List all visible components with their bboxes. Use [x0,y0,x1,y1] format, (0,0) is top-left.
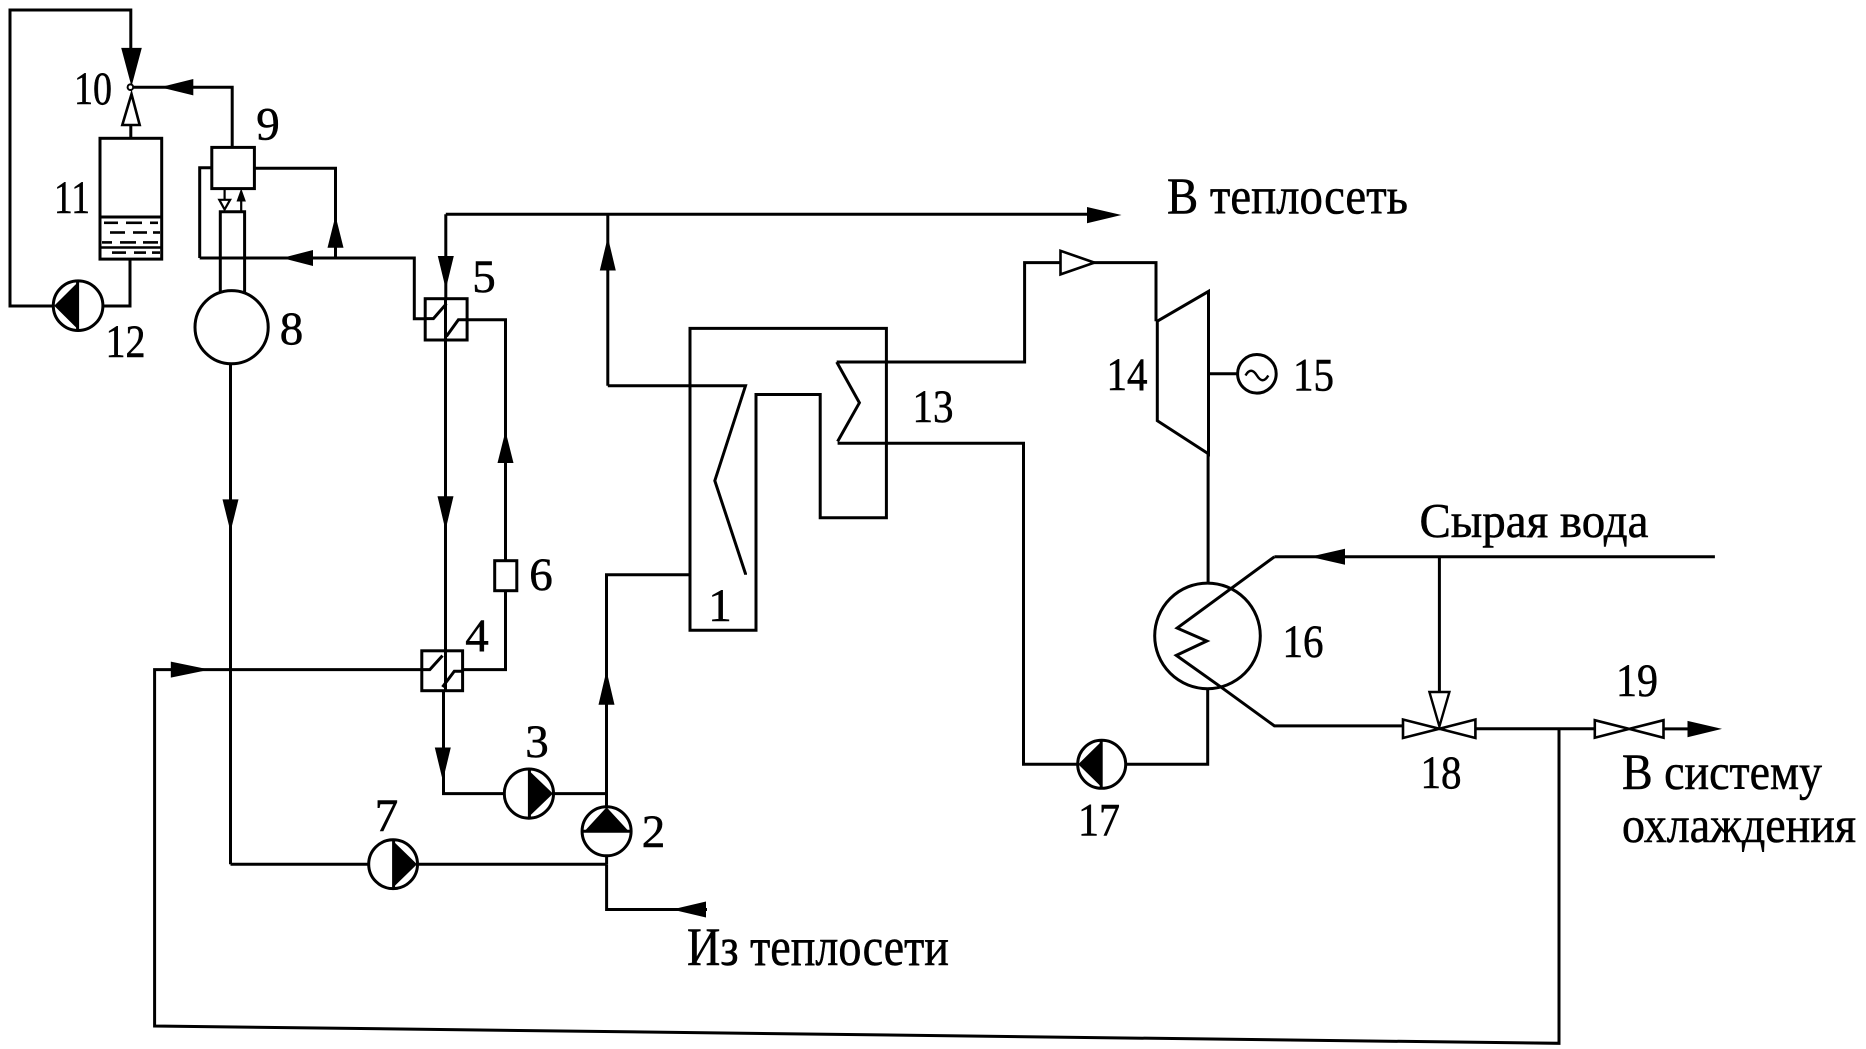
wire return loop: hx4 feed, left drop, bottom run [155,670,1559,1044]
wire сырая вода line [1274,555,1715,558]
svg-text:8: 8 [280,303,304,355]
column of deaerator 8 [220,212,244,295]
svg-text:12: 12 [106,316,146,368]
svg-text:19: 19 [1616,655,1658,707]
wire riser from pump 2 up to boiler inlet [607,575,746,807]
box 9 [212,147,255,188]
generator 15 [1238,355,1277,394]
svg-text:17: 17 [1078,795,1120,847]
open arrow down from box 9 (to deaerator column) [219,189,230,210]
svg-text:Из теплосети: Из теплосети [687,917,949,977]
wire box6 down to hx4 right [463,590,506,670]
svg-text:7: 7 [375,790,399,842]
wire horizontal y258 to hx 5 [200,258,426,319]
wire hx5 right to box 6 riser [467,320,505,562]
wire box 9 right to node at y258 [254,168,335,258]
svg-text:18: 18 [1421,747,1462,799]
wire tank 11 bottom to pump 12 [103,259,130,306]
svg-text:15: 15 [1293,350,1334,402]
svg-text:2: 2 [642,806,666,858]
turbine 14 [1157,291,1208,454]
svg-text:В теплосеть: В теплосеть [1167,169,1408,226]
heat exchanger 5 [425,299,467,340]
arrow left on valve-10 feed line [160,79,193,95]
open arrow right on steam line [1061,251,1095,275]
pump 3 [504,769,553,818]
arrow up on boiler outlet riser [600,237,616,271]
svg-text:11: 11 [54,172,90,224]
pump 7 [369,840,418,889]
arrow right в систему охлаждения [1688,721,1723,737]
arrow left on сырая вода [1310,549,1345,565]
pump 12 [53,281,103,331]
svg-text:9: 9 [256,99,280,151]
wire valve 18 to valve 19 [1475,727,1594,730]
boiler 1 outline [690,328,886,630]
deaerator tank 8 [195,291,268,364]
wire top line into hx 5 [444,214,447,299]
box 6 (flow restrictor) [495,561,517,591]
svg-text:Сырая вода: Сырая вода [1420,495,1649,548]
wire pump 3 to riser [554,792,607,795]
open arrow down into valve 18 [1429,692,1449,727]
arrow down into hx 5 [438,256,454,289]
arrow up on box-9 right riser [328,216,344,248]
wire turbine to generator [1209,372,1238,375]
arrow up on riser to box 6 [498,431,514,463]
arrow up on boiler feed riser [599,671,615,705]
arrow down on deaerator outlet [223,499,239,531]
wire branch down to valve 18 [1438,557,1441,692]
wire из теплосети inlet [607,864,707,909]
arrow right В теплосеть [1087,207,1122,223]
filled arrow up into box 9 from column [237,188,246,211]
svg-text:1: 1 [708,580,732,632]
svg-text:10: 10 [74,63,112,115]
arrow right on return loop into hx4 [171,662,210,678]
svg-text:6: 6 [529,549,553,601]
pump 2 [582,807,631,856]
svg-text:3: 3 [525,716,549,768]
wire top-left loop from valve 10 to pump 12 [10,10,131,306]
wire hx4 bottom to pump 3 [444,691,505,794]
tank 11 [100,138,162,259]
arrow down on hx4 outlet [435,748,451,781]
svg-text:13: 13 [913,381,954,433]
wire valve 19 outlet [1664,727,1689,730]
valve 19 [1595,720,1664,738]
svg-text:16: 16 [1283,616,1324,668]
svg-text:охлаждения: охлаждения [1622,797,1856,853]
wire turbine exhaust to heater 16 [1207,454,1210,584]
wire deaerator drop to pump 7 [231,863,369,866]
svg-text:14: 14 [1107,349,1148,401]
raw water coil through heater 16 [1176,557,1403,726]
wire box 9 left down [200,168,212,258]
svg-text:В систему: В систему [1622,744,1823,800]
svg-text:5: 5 [472,251,496,303]
steam coil 13 top line to turbine [837,263,1156,362]
arrow left on y258 wire [282,250,313,266]
valve 10 [122,49,140,138]
arrow left on из теплосети inlet [672,902,706,918]
pump 17 [1078,740,1126,788]
coil 13 zigzag [837,362,860,442]
wire boiler outlet riser to network line [606,214,609,386]
wire hx5 to hx4 vertical [444,340,447,651]
valve 18 [1403,720,1475,739]
wire from box 9 to valve 10 [134,87,233,147]
boiler 1 heating surface zigzag [608,386,746,575]
wire pump 17 to heater 16 bottom [1126,688,1208,764]
coil 13 bottom line / condensate down to pump 17 [838,443,1078,764]
wire deaerator 8 down [229,364,232,864]
wire pump 7 to pump 2 [418,863,607,866]
heat exchanger 4 [422,651,463,691]
svg-text:4: 4 [465,610,489,662]
arrow down on hx5-hx4 pipe [438,496,454,530]
wire network supply top (to В теплосеть) [446,213,1088,216]
wire pump2 bottom stub [605,856,608,864]
heater 16 circle [1155,583,1261,689]
